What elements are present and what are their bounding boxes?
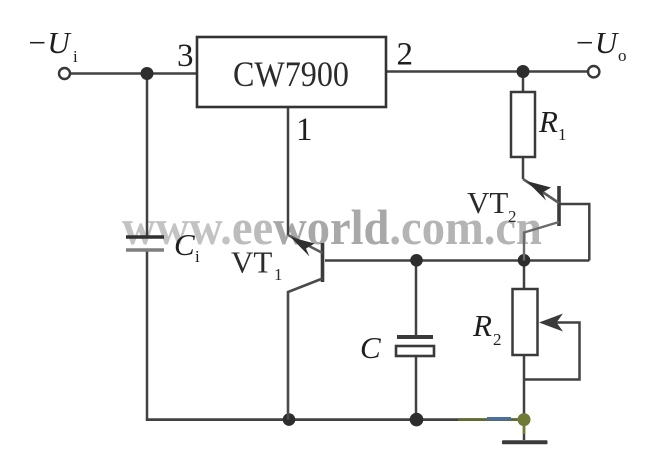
terminal input circle: [59, 68, 70, 79]
svg-text:C: C: [174, 227, 195, 262]
svg-text:C: C: [360, 330, 381, 365]
svg-text:1: 1: [274, 265, 283, 284]
node output junction: [517, 65, 530, 78]
resistor R1: [511, 92, 535, 157]
transistor VT1: [288, 235, 323, 420]
wire output: [386, 70, 589, 73]
node base rail C junction: [410, 254, 423, 267]
svg-text:R: R: [472, 308, 492, 343]
label -Uo: [574, 25, 627, 65]
label VT1: [231, 245, 283, 285]
wire R1 top: [522, 72, 525, 93]
svg-text:−U: −U: [574, 25, 620, 60]
wire left vertical upper: [146, 74, 149, 239]
svg-text:2: 2: [397, 37, 414, 73]
label -Ui: [27, 25, 79, 66]
svg-text:CW7900: CW7900: [233, 54, 349, 94]
wire ground stem olive tint: [523, 420, 526, 434]
wire pin1 down: [287, 107, 290, 235]
svg-text:o: o: [618, 46, 627, 65]
svg-text:1: 1: [296, 112, 313, 148]
node rail C junction: [410, 413, 424, 427]
watermark: [122, 201, 542, 256]
wire bottom rail: [146, 418, 524, 421]
wire base rail: [325, 259, 589, 262]
R2 wiper arrow: [539, 314, 563, 332]
capacitor C: [396, 337, 434, 356]
wire left vertical lower: [146, 249, 149, 420]
node input junction: [141, 67, 154, 80]
capacitor Ci: [126, 237, 164, 250]
wire rail olive tint segment: [458, 418, 524, 421]
wire VT2 base loop: [560, 204, 589, 261]
wire input: [70, 72, 197, 75]
svg-text:VT: VT: [231, 245, 272, 280]
ground: [502, 440, 548, 444]
op-amp U1: CW7900 regulator box: [197, 37, 386, 107]
wire R2 wiper loop: [523, 323, 580, 380]
svg-text:VT: VT: [467, 185, 508, 220]
terminal output circle: [588, 66, 599, 77]
wire ground stem: [523, 420, 526, 440]
wire C top: [415, 261, 418, 338]
wire R1 bottom to VT2 emitter: [522, 157, 525, 179]
svg-text:i: i: [195, 247, 200, 266]
label Ci: [174, 227, 200, 266]
svg-text:−U: −U: [27, 25, 73, 60]
svg-text:3: 3: [177, 38, 194, 74]
label VT2: [467, 185, 517, 226]
wire rail blue blob: [487, 417, 511, 420]
svg-text:2: 2: [508, 207, 517, 226]
label R2: [472, 308, 502, 349]
node rail VT1 junction: [283, 413, 296, 426]
wire R2 top: [523, 261, 526, 290]
node rail ground junction: [518, 413, 531, 426]
node base rail VT2 junction: [518, 254, 531, 267]
resistor R2: [513, 289, 538, 355]
svg-text:1: 1: [558, 125, 567, 144]
wire C bottom: [415, 356, 418, 420]
transistor VT2: [523, 179, 559, 261]
svg-text:i: i: [73, 47, 78, 66]
label R1: [538, 104, 567, 144]
svg-text:R: R: [538, 104, 558, 139]
wire R2 bottom: [523, 355, 526, 420]
svg-text:2: 2: [493, 330, 502, 349]
